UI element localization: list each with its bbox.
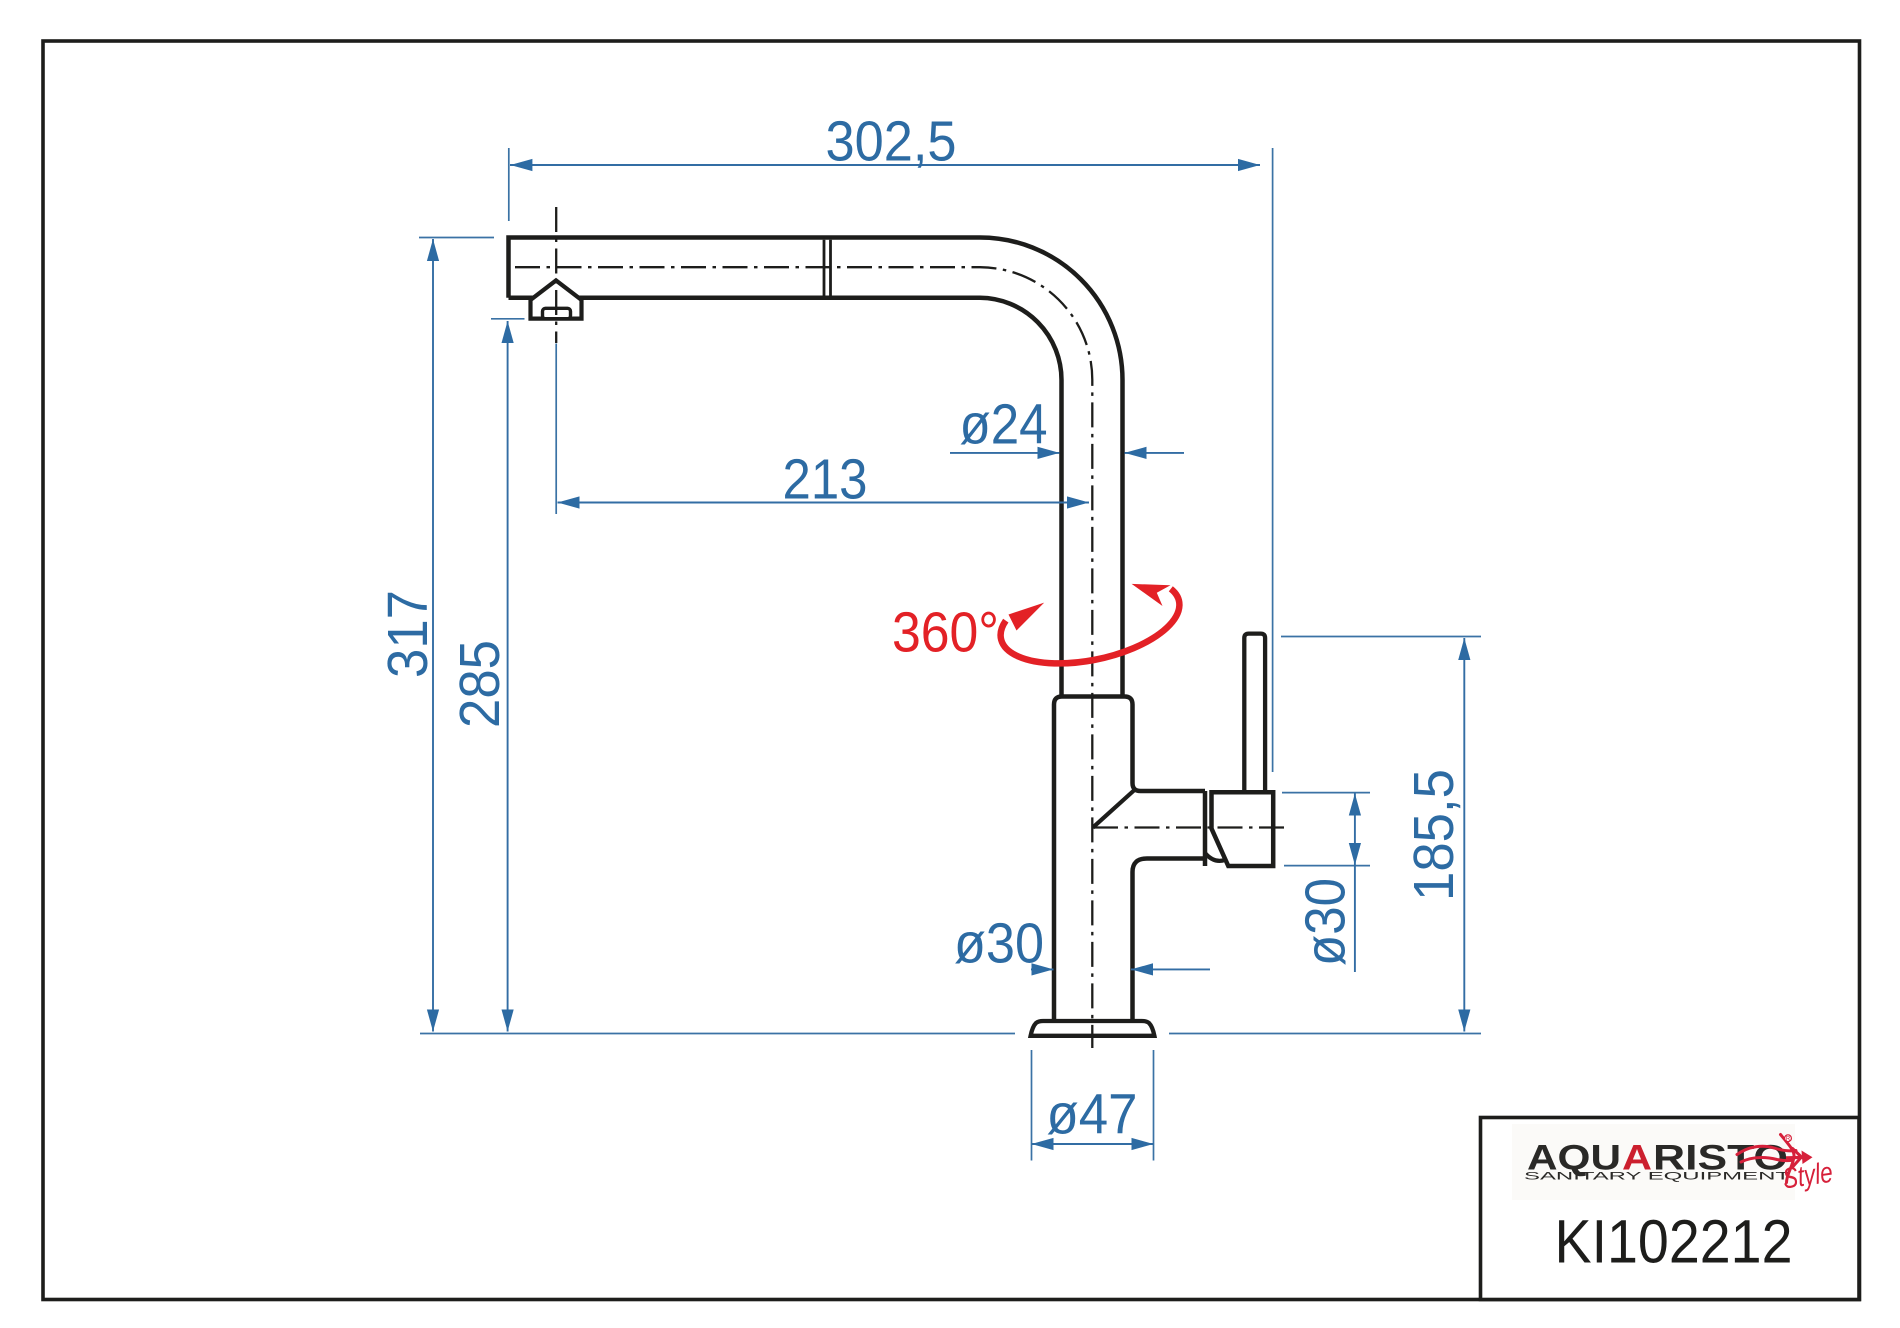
svg-text:317: 317: [376, 590, 440, 678]
logo backdrop: [1512, 1124, 1795, 1200]
svg-text:ø30: ø30: [1294, 878, 1358, 966]
dimension ø30 column: [954, 912, 1210, 976]
aerator outlet: [543, 308, 571, 318]
spout bottom edge right segment and riser left edge: [579, 298, 1062, 697]
svg-text:ø47: ø47: [1047, 1083, 1138, 1147]
handle cartridge body: [1212, 792, 1274, 866]
svg-text:213: 213: [783, 447, 868, 511]
aerator tip: [531, 280, 582, 318]
logo red arrow: [1786, 1156, 1803, 1160]
svg-text:302,5: 302,5: [826, 110, 957, 174]
dimension 302,5: [509, 110, 1273, 773]
centerline handle axis: [1093, 826, 1286, 828]
base flange: [1031, 1021, 1155, 1036]
svg-text:185,5: 185,5: [1402, 769, 1466, 901]
handle bottom arc: [1205, 853, 1225, 861]
spout bottom edge left segment: [509, 296, 534, 301]
centerline aerator axis: [555, 207, 557, 343]
dimension 185,5: [1281, 637, 1481, 1032]
red rotation arrowheads: [1009, 603, 1045, 631]
pull-out spray break lines: [824, 240, 831, 296]
svg-text:SANITARY EQUIPMENT: SANITARY EQUIPMENT: [1524, 1171, 1791, 1183]
svg-text:ø24: ø24: [960, 392, 1048, 456]
dimension 213: [556, 344, 1089, 515]
faucet body column and side stub: [1054, 697, 1205, 1022]
svg-text:285: 285: [448, 640, 512, 728]
centerline spout axis: [515, 267, 1092, 1048]
body internal diagonal: [1093, 790, 1135, 828]
dimension ø30 handle: [1282, 793, 1370, 972]
dimension 317: [376, 238, 494, 1032]
logo wordmark AQUARISTO: [1527, 1139, 1788, 1178]
handle lever rod: [1244, 634, 1265, 793]
logo registered mark: [1785, 1135, 1792, 1142]
faucet spout outline: [509, 238, 1123, 697]
logo red waves through O: [1737, 1146, 1796, 1154]
dimension ø24: [950, 392, 1184, 459]
svg-text:KI102212: KI102212: [1555, 1207, 1793, 1275]
dimension 285: [448, 319, 525, 1032]
title block box: [1481, 1118, 1860, 1300]
dimension ø47: [1032, 1050, 1154, 1161]
svg-text:ø30: ø30: [954, 912, 1044, 976]
mounting surface line: [420, 1033, 1481, 1035]
logo red bow curve: [1781, 1135, 1795, 1183]
svg-text:360°: 360°: [892, 601, 999, 665]
red 360 rotation ellipse arc: [1001, 589, 1180, 664]
svg-text:R: R: [1786, 1136, 1791, 1142]
